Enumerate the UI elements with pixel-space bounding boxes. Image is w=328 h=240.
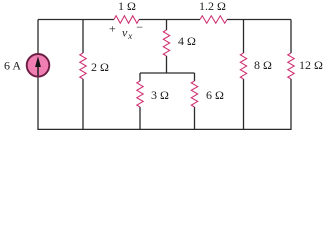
svg-text:+: + — [109, 22, 116, 36]
svg-text:8 Ω: 8 Ω — [254, 58, 272, 72]
svg-text:v: v — [122, 26, 128, 40]
svg-text:−: − — [136, 20, 143, 34]
svg-text:1.2 Ω: 1.2 Ω — [199, 0, 226, 13]
svg-text:1 Ω: 1 Ω — [118, 0, 136, 13]
svg-text:6 Ω: 6 Ω — [206, 88, 224, 102]
svg-text:2 Ω: 2 Ω — [91, 60, 109, 74]
svg-text:3 Ω: 3 Ω — [151, 88, 169, 102]
svg-text:x: x — [127, 31, 132, 41]
svg-text:12 Ω: 12 Ω — [299, 58, 323, 72]
svg-text:4 Ω: 4 Ω — [178, 34, 196, 48]
svg-text:6 A: 6 A — [4, 59, 21, 73]
